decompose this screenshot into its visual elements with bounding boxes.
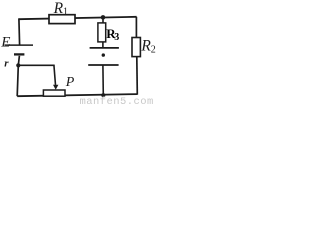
wire: top wire from top-left corner to top-right corner	[19, 17, 137, 19]
wire: right wire bottom segment (R2 down to bottom-right corner)	[136, 57, 139, 95]
node: junction dot at r (left wire to P branch)	[16, 63, 20, 67]
svg-text:3: 3	[114, 32, 119, 43]
wire: left wire top segment (corner down to battery long plate)	[18, 18, 21, 44]
svg-text:r: r	[4, 58, 9, 70]
wire: stem from top junction down to R3	[102, 18, 104, 24]
resistor R3 box	[98, 23, 106, 42]
wire: stem from R3 bottom to capacitor top plate	[102, 42, 104, 48]
svg-text:P: P	[65, 75, 75, 90]
node: junction dot on bottom wire at capacitor stem	[101, 93, 105, 97]
svg-text:R: R	[53, 0, 64, 17]
capacitor bottom plate	[88, 64, 118, 66]
rheostat P box	[43, 90, 65, 96]
wire: right wire top segment (top-right corner down to R2)	[135, 17, 137, 38]
resistor R2 box	[132, 38, 140, 57]
wire: P branch horizontal from r junction	[18, 64, 54, 66]
resistor R1 box	[49, 15, 75, 24]
capacitor top plate	[90, 47, 119, 49]
wire: P branch vertical shaft down to arrowhead	[54, 65, 56, 85]
svg-text:manfen5.com: manfen5.com	[80, 96, 154, 106]
wire: left wire lower segment (short plate down to bottom-left corner)	[17, 56, 19, 96]
wire: stem from capacitor bottom plate down to bottom wire	[102, 65, 104, 95]
charged particle between capacitor plates	[102, 53, 105, 56]
wire: bottom wire from bottom-left corner to bottom-right corner	[17, 94, 137, 96]
svg-text:R: R	[140, 37, 151, 54]
battery E long plate	[5, 44, 34, 46]
svg-text:E: E	[0, 35, 10, 51]
node: junction dot on top wire at R3 branch	[101, 15, 106, 20]
battery E short plate	[14, 53, 24, 55]
svg-text:2: 2	[151, 44, 156, 55]
arrowhead of rheostat P slider	[53, 85, 58, 90]
svg-text:1: 1	[63, 7, 68, 18]
